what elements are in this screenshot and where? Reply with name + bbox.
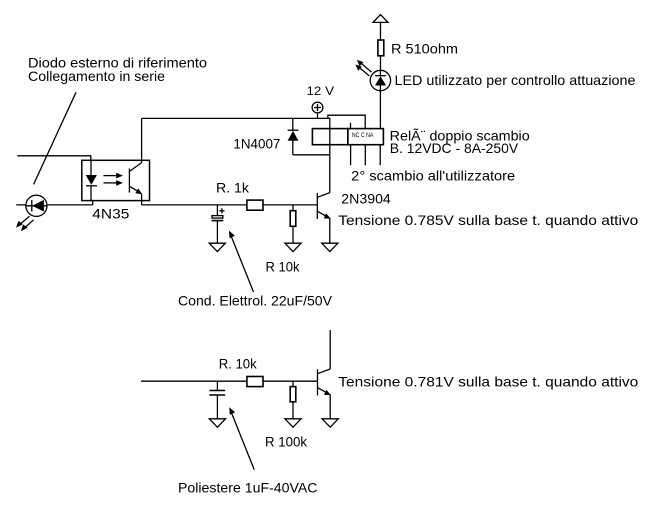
ground under Q2 emitter [322,419,338,427]
svg-text:Cond. Elettrol. 22uF/50V: Cond. Elettrol. 22uF/50V [178,292,333,308]
svg-text:1N4007: 1N4007 [233,136,280,152]
svg-text:Tensione 0.785V sulla base t.: Tensione 0.785V sulla base t. quando att… [338,212,638,228]
resistor R3 10k (vertical box) [290,205,296,243]
resistor R4 10k (horizontal box) [247,377,263,387]
transistor Q2 [318,330,332,418]
relay bottom pin NC [350,145,352,166]
svg-text:Poliestere 1uF-40VAC: Poliestere 1uF-40VAC [178,480,318,496]
svg-text:R 510ohm: R 510ohm [391,41,458,57]
external LED D3 (circle, triangle pointing left) [26,195,47,216]
relay K1 coil box [312,129,347,145]
svg-text:LED utilizzato per controllo a: LED utilizzato per controllo attuazione [395,72,636,88]
svg-text:12 V: 12 V [307,84,335,98]
relay bottom pin NA [379,145,381,166]
svg-text:Tensione 0.781V sulla base t.: Tensione 0.781V sulla base t. quando att… [338,373,638,389]
wire 12V rail (horizontal from opto collector to relay) [142,117,331,119]
wire bottom base rail [141,380,318,382]
svg-text:4N35: 4N35 [92,205,129,221]
ground under C1 [209,243,225,251]
resistor R1 510ohm (vertical box) [378,40,384,56]
svg-text:R. 1k: R. 1k [216,180,250,196]
opto phototransistor [129,118,142,204]
ground under C2 [209,419,225,427]
LED D2 emission arrows [355,60,371,76]
svg-text:R. 10k: R. 10k [219,355,258,371]
wire resistor to LED [380,56,382,71]
opto light arrows [104,173,124,186]
resistor R5 100k (vertical box) [290,381,296,418]
supply arrow (up, open triangle) [373,15,388,41]
ground under R5 [285,419,301,427]
diode D1 1N4007 (flyback, cathode up) [288,118,299,154]
wire input bottom stub (through external LED) [16,204,93,206]
ground under Q1 emitter [322,243,338,251]
svg-text:R 100k: R 100k [265,433,308,449]
ground under R3 [285,243,301,251]
capacitor C2 polyester 1uF [209,381,225,418]
opto internal LED (triangle down + bar) [86,160,97,200]
wire base rail (opto emitter to Q1 base) [142,204,318,206]
relay NC top stub pin [350,123,352,129]
svg-text:B. 12VDC - 8A-250V: B. 12VDC - 8A-250V [390,140,519,156]
opto pin stubs below box [92,201,94,205]
wire jog to relay C top pin [328,115,365,128]
relay bottom pin C [364,145,366,166]
12V supply terminal (circle plus) [312,102,323,118]
wire relay coil vertical (12V rail down to Q1 collector) [329,118,331,192]
svg-text:2° scambio all'utilizzatore: 2° scambio all'utilizzatore [351,168,515,184]
svg-text:2N3904: 2N3904 [341,190,391,206]
wire LED to relay NA top pin [379,89,381,128]
annotation arrow to C1 [229,231,254,292]
wire diode bottom to coil vertical [293,154,330,156]
svg-text:R 10k: R 10k [266,259,301,275]
capacitor C1 electrolytic 22uF/50V [212,205,225,243]
annotation arrow to C2 [229,407,254,469]
transistor Q1 2N3904 [317,193,331,243]
relay K1 contact box [348,129,384,145]
wire input top stub [17,156,91,161]
svg-text:NC C NA: NC C NA [352,132,374,139]
optocoupler U1 4N35 box [82,160,150,200]
annotation line to external diode [34,92,76,184]
LED D2 indicator (circle + filled triangle + bar) [370,70,390,90]
svg-text:Collegamento in serie: Collegamento in serie [28,68,165,84]
external LED D3 emission arrows [16,216,34,231]
resistor R2 1k (horizontal box) [247,200,263,210]
